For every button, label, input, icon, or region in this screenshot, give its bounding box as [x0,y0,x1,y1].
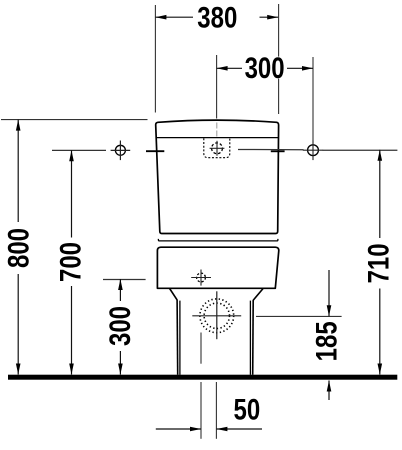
reference line right of button [238,148,304,150]
dimension 700 [71,150,73,374]
centerline upper (300 extension) [216,55,218,119]
label 800 [1,226,35,271]
dimension 50 [156,428,201,430]
label 300 left [102,304,136,349]
svg-text:185: 185 [309,321,343,361]
dimension 300 top [217,67,313,69]
floor line [8,375,397,380]
right supply cross circle [308,145,319,156]
pedestal right outer wall [252,300,255,375]
flush button dashed circle [212,143,223,154]
extension line 300 right vertical [312,57,314,144]
fixing hole centerline dash [200,333,202,364]
380 extension line left [154,5,156,113]
svg-text:380: 380 [197,0,237,34]
cistern lid line [156,137,278,139]
bowl upper box [157,247,278,288]
extension line 300 left [103,278,146,280]
dimension 800 [17,120,19,375]
cistern tank outline [156,120,279,233]
svg-text:700: 700 [53,242,87,282]
label 50 [234,392,261,426]
tank base seam line [158,239,278,241]
left supply cross circle [115,145,125,155]
pedestal right inner wall [249,301,251,375]
hidden fixing hole crosshair [191,277,211,279]
svg-text:50: 50 [234,392,261,426]
dimension 380 [155,16,278,18]
outlet crosshair horizontal [192,315,241,317]
pedestal left inner wall [179,301,181,375]
outlet crosshair vertical [216,291,218,339]
tick across tank right wall [271,150,285,152]
dimension 710 [379,150,381,375]
extension line 185 [256,315,342,317]
label 185 [309,321,343,361]
380 extension line right [278,4,280,114]
dimension 185 [328,270,330,400]
hidden fixing hole dashed circle [197,273,206,282]
label 300 top [244,50,286,84]
flush button crosshair [210,147,225,149]
outlet inner dotted circle [204,303,229,328]
svg-text:710: 710 [361,243,395,283]
pedestal left taper [170,289,178,301]
label 710 [361,241,395,286]
pedestal right taper [253,289,263,301]
reference line 710 top [323,149,398,151]
extension line 800 top [1,119,148,121]
outlet outer dotted circle [200,299,234,333]
tick across tank left wall [146,150,164,152]
50 extension line right below floor [215,382,217,439]
label 700 [53,240,87,285]
50 extension line left below floor [200,382,202,439]
svg-text:300: 300 [102,306,136,346]
svg-text:800: 800 [1,228,35,268]
svg-text:300: 300 [245,50,285,84]
flush button dashed recess [204,138,230,157]
dimension 300 left [119,279,121,375]
label 380 [197,0,237,34]
pedestal left outer wall [176,300,179,375]
extension line 700 top left [52,149,106,151]
centerline dash in lid [216,123,218,138]
